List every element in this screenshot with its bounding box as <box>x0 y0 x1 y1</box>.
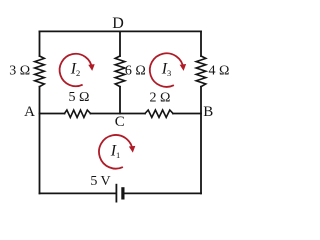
resistor 3ohm <box>35 56 45 87</box>
mesh current arrow I1 <box>99 135 133 169</box>
svg-text:2 Ω: 2 Ω <box>150 91 171 106</box>
svg-text:D: D <box>112 15 124 32</box>
battery V1 short plate <box>121 189 124 198</box>
wire 2ohm to B <box>173 113 201 115</box>
wire top D rail <box>40 30 202 32</box>
mesh current arrow I2 <box>60 54 92 86</box>
svg-text:A: A <box>24 104 35 120</box>
svg-text:I3: I3 <box>161 61 172 79</box>
svg-text:B: B <box>203 104 213 120</box>
resistor 5ohm <box>65 110 91 117</box>
wire battery to bottom right <box>124 192 201 194</box>
wire right lower segment <box>200 87 202 194</box>
wire middle vertical upper <box>119 31 121 56</box>
wire A to 5ohm <box>40 113 65 115</box>
wire left lower segment <box>39 87 41 194</box>
svg-text:5 V: 5 V <box>90 174 110 189</box>
wire left upper segment <box>39 31 41 56</box>
wire middle vertical lower <box>119 87 121 114</box>
mesh current arrow I3 <box>150 53 183 87</box>
svg-text:4 Ω: 4 Ω <box>208 64 229 79</box>
battery V1 long plate <box>115 185 117 202</box>
resistor 2ohm <box>145 110 173 117</box>
resistor 6ohm <box>115 56 125 87</box>
svg-text:3 Ω: 3 Ω <box>9 64 30 79</box>
resistor 4ohm <box>196 56 206 87</box>
svg-text:I2: I2 <box>70 61 81 79</box>
wire bottom left to battery <box>40 192 116 194</box>
svg-text:C: C <box>115 114 125 130</box>
svg-text:5 Ω: 5 Ω <box>69 90 90 105</box>
svg-text:6 Ω: 6 Ω <box>125 64 146 79</box>
wire 5ohm to C <box>91 113 146 115</box>
svg-text:I1: I1 <box>110 143 121 161</box>
wire right upper segment <box>200 31 202 56</box>
